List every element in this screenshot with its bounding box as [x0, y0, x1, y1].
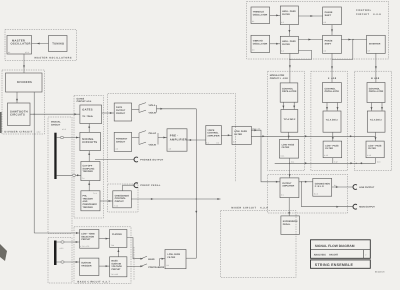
- svg-text:VOICE: VOICE: [207, 129, 215, 132]
- svg-text:TRIGGER: TRIGGER: [83, 197, 94, 200]
- svg-text:LOW - TONE: LOW - TONE: [81, 233, 95, 236]
- gates box: [80, 105, 102, 124]
- wire cutoff trigger to mixing circuits: [88, 151, 90, 162]
- wire output amplifier to main output jack: [301, 181, 354, 208]
- svg-text:CELLO: CELLO: [149, 132, 157, 135]
- wire formant to formant switches: [132, 133, 139, 145]
- svg-text:4.2.2: 4.2.2: [60, 247, 64, 250]
- svg-text:CRESC PEDAL: CRESC PEDAL: [140, 184, 161, 187]
- wire bass lpf to mixer bus: [186, 257, 196, 259]
- low pass filter bass box: [165, 250, 186, 269]
- wire crescendo bus to output stage: [131, 198, 220, 200]
- wire crescendo control to pedal jack: [123, 185, 135, 191]
- wire bass keyboard to sustain trigger: [57, 261, 80, 263]
- crescendo circuit dashed box: [108, 184, 139, 212]
- svg-text:LOW - PASS: LOW - PASS: [325, 144, 339, 147]
- wire tca 2 to lpf 2: [332, 132, 334, 141]
- wire pre-amplifier to voice control amplifier: [187, 139, 206, 141]
- svg-text:7.4: 7.4: [82, 177, 84, 180]
- svg-text:6.4: 6.4: [281, 50, 283, 53]
- high pass filter 2 box: [280, 36, 298, 53]
- wires control oscillator 1 to tca 1: [282, 102, 295, 109]
- wire hpf1 to hpf2: [288, 25, 290, 37]
- wire master oscillator to dividers: [23, 54, 25, 73]
- svg-text:SUSTAIN: SUSTAIN: [81, 262, 91, 265]
- svg-text:CIRCUIT: CIRCUIT: [81, 238, 91, 241]
- master oscillators dashed box: [5, 30, 77, 61]
- title block frame: [311, 240, 371, 258]
- bass circuit dashed box: [74, 227, 131, 284]
- svg-text:T.C.A 350 Z: T.C.A 350 Z: [370, 119, 383, 122]
- svg-text:VIOLA: VIOLA: [149, 104, 156, 107]
- tuning box: [49, 36, 68, 52]
- svg-text:6.12: 6.12: [334, 161, 337, 164]
- wire lpf 3 to output bus: [375, 158, 377, 164]
- bass lpf dashed edge: [133, 247, 135, 280]
- svg-text:LOW- PASS: LOW- PASS: [234, 130, 247, 133]
- phl trigger and crescendo trigger box: [81, 191, 100, 211]
- svg-text:F I E L D: F I E L D: [315, 185, 324, 188]
- divider circuit dashed box: [2, 70, 45, 134]
- svg-text:SUSTAIN: SUSTAIN: [111, 262, 121, 265]
- svg-text:MODULATOR: MODULATOR: [270, 74, 285, 77]
- svg-text:CUT-OFF: CUT-OFF: [83, 165, 93, 168]
- wire sustain trigger to bass sustain voltage: [99, 265, 110, 267]
- manual circuit dashed box: [48, 117, 72, 234]
- svg-text:CIRCUITS: CIRCUITS: [82, 141, 97, 144]
- high pass filter 1 box: [280, 6, 298, 25]
- wire gates to gate output circuit: [102, 112, 115, 114]
- low pass filter voice box: [232, 126, 251, 144]
- svg-text:OSCILLATOR: OSCILLATOR: [369, 90, 384, 93]
- wire lpf 2 to output bus: [332, 158, 334, 164]
- wire bass sustain voltage to clipper: [117, 247, 119, 256]
- phase shift 2 box: [323, 35, 342, 53]
- svg-text:6.11: 6.11: [291, 161, 294, 164]
- wire output amplifier to expression pedal: [288, 198, 290, 216]
- svg-text:PHASE: PHASE: [325, 11, 333, 14]
- bass sustain voltage circuit box: [110, 257, 127, 277]
- wire tca 3 to lpf 3: [375, 132, 377, 141]
- svg-text:T.C.A 350 Z: T.C.A 350 Z: [326, 119, 339, 122]
- main output jack: [353, 204, 375, 209]
- svg-text:AMPLIFIER: AMPLIFIER: [282, 185, 294, 188]
- svg-text:CIRCUIT 4.3.6: CIRCUIT 4.3.6: [356, 13, 381, 16]
- wire lpf 1 to output bus: [289, 158, 291, 163]
- switch cello: [139, 131, 156, 135]
- switch violin 2: [139, 142, 156, 146]
- svg-text:9.1: 9.1: [281, 194, 283, 197]
- clipper box: [110, 230, 127, 248]
- svg-text:EXPRESSION: EXPRESSION: [283, 220, 298, 223]
- svg-text:9.4.2: 9.4.2: [314, 193, 318, 196]
- crescendo pedal jack: [134, 183, 161, 188]
- wire manual keyboard to cutoff trigger: [57, 174, 81, 176]
- svg-text:VIOLIN: VIOLIN: [149, 112, 157, 115]
- control oscillator 2 box: [323, 83, 342, 103]
- svg-text:FILTER: FILTER: [282, 43, 290, 46]
- modulator circuit III dashed box: [354, 71, 391, 170]
- wire manual keyboard to mixing circuits: [57, 136, 80, 138]
- svg-text:6.7: 6.7: [368, 50, 370, 53]
- wire phase junction jog to control oscillator 2: [332, 40, 353, 60]
- low pass filter mod2 box: [323, 141, 342, 158]
- svg-text:MANUAL: MANUAL: [51, 121, 61, 124]
- svg-text:6.13: 6.13: [377, 161, 380, 164]
- low tone selection circuit box: [80, 230, 99, 249]
- expression pedal box: [281, 216, 300, 235]
- modulator output bus: [275, 162, 376, 164]
- svg-text:7.4.1: 7.4.1: [93, 192, 97, 195]
- switch bass: [141, 256, 155, 261]
- wires control oscillator 2 to tca 2: [326, 103, 339, 112]
- tca350 1 box: [281, 110, 298, 133]
- wire tremolo oscillator to hpf1: [270, 14, 281, 16]
- wire sawtooth circuits to gates: [30, 113, 80, 115]
- svg-text:CIRCUIT: CIRCUIT: [51, 123, 61, 126]
- svg-text:FILTER: FILTER: [168, 256, 176, 259]
- svg-text:6.3: 6.3: [252, 49, 254, 52]
- svg-text:6.1.1: 6.1.1: [281, 154, 285, 157]
- svg-text:TN 72445: TN 72445: [82, 115, 93, 118]
- svg-text:SAMPLING: SAMPLING: [83, 167, 95, 170]
- tca350 2 box: [323, 111, 341, 132]
- phase shift 1 box: [323, 7, 342, 25]
- line output jack: [353, 185, 375, 190]
- wire clipper to bass switch: [127, 238, 143, 260]
- svg-text:FORMANT: FORMANT: [116, 137, 128, 140]
- svg-text:CIRCUIT 4.3.4: CIRCUIT 4.3.4: [77, 100, 93, 103]
- wire connection field to line output jack: [332, 186, 354, 188]
- svg-text:PHONES OUTPUT: PHONES OUTPUT: [140, 159, 164, 162]
- wire bass keyboard to low tone selection: [57, 241, 80, 243]
- svg-text:CRESCENDO: CRESCENDO: [115, 194, 130, 197]
- svg-text:INVERTER: INVERTER: [369, 42, 381, 45]
- svg-text:OUTPUT: OUTPUT: [282, 182, 292, 185]
- wire inverter to control oscillator 3: [375, 53, 377, 82]
- control circuit dashed box: [247, 1, 389, 59]
- svg-text:8.1: 8.1: [167, 264, 169, 267]
- svg-text:FILTER: FILTER: [325, 147, 333, 150]
- svg-text:OSCILLATOR: OSCILLATOR: [282, 90, 297, 93]
- wire phase shift 1 to phase shift 2: [331, 25, 333, 36]
- voicing circuit dashed box: [108, 94, 236, 183]
- wire left bus to low tone selection: [34, 232, 79, 234]
- wire voice switches to mixer bus: [157, 105, 197, 113]
- inverter box: [367, 35, 386, 53]
- svg-text:CONTRABASS: CONTRABASS: [148, 266, 164, 269]
- svg-text:CIRCUIT 1 4.3.8: CIRCUIT 1 4.3.8: [270, 77, 289, 80]
- svg-text:VIOLIN: VIOLIN: [149, 144, 157, 147]
- modulator input bus: [251, 135, 375, 137]
- svg-text:4.6: 4.6: [116, 148, 118, 151]
- low pass filter mod1 box: [279, 140, 298, 159]
- svg-text:OSCILLATOR: OSCILLATOR: [325, 90, 340, 93]
- svg-text:6.2: 6.2: [281, 21, 283, 24]
- scan smudge left top: [0, 112, 2, 133]
- svg-text:HIGH - PASS: HIGH - PASS: [282, 40, 296, 43]
- svg-text:OSCILLATOR: OSCILLATOR: [11, 43, 31, 46]
- svg-text:OSCILLATOR: OSCILLATOR: [253, 13, 268, 16]
- svg-text:CONTROL: CONTROL: [115, 197, 127, 200]
- scan smudge left bottom: [0, 244, 7, 261]
- svg-text:7.4.2: 7.4.2: [114, 204, 118, 207]
- svg-text:T.C.A 350 Z: T.C.A 350 Z: [284, 118, 297, 121]
- connection field box: [313, 178, 332, 196]
- vibrato oscillator box: [251, 35, 270, 52]
- svg-text:MOD 4.3.8: MOD 4.3.8: [252, 128, 260, 131]
- manual keyboard bar: [54, 133, 56, 179]
- wires control oscillator 3 to tca 3: [371, 103, 384, 112]
- svg-text:FILTER: FILTER: [282, 13, 290, 16]
- switch viola: [139, 103, 156, 107]
- svg-text:MAIN OUTPUT: MAIN OUTPUT: [359, 206, 375, 209]
- svg-text:CONTROL: CONTROL: [325, 87, 337, 90]
- wire bass switches to bass lpf: [159, 258, 165, 267]
- svg-text:4.3.2: 4.3.2: [37, 130, 41, 133]
- cutoff sampling trigger box: [81, 162, 100, 181]
- svg-text:FILTER: FILTER: [234, 133, 242, 136]
- svg-text:CONTROL: CONTROL: [207, 132, 219, 135]
- svg-text:CIRCUITS: CIRCUITS: [10, 114, 25, 117]
- output amplifier box: [280, 178, 299, 198]
- wire output bus to output amplifier: [289, 163, 291, 178]
- svg-text:AND: AND: [83, 200, 88, 203]
- svg-text:DIVIDER CIRCUIT: DIVIDER CIRCUIT: [5, 130, 33, 133]
- svg-text:TUNING: TUNING: [52, 43, 64, 46]
- wire to phones jack: [95, 159, 135, 161]
- svg-text:CONTROL: CONTROL: [356, 9, 372, 12]
- switch contrabass: [141, 264, 165, 269]
- svg-text:TRIGGER: TRIGGER: [83, 170, 94, 173]
- control oscillator 3 box: [367, 83, 385, 103]
- wire phl trigger to cutoff trigger: [88, 181, 90, 191]
- svg-text:FILTER: FILTER: [282, 146, 290, 149]
- svg-text:6.5: 6.5: [324, 21, 326, 24]
- svg-text:4.5: 4.5: [169, 147, 171, 150]
- svg-text:BASS: BASS: [148, 258, 155, 261]
- svg-text:MIXER CIRCUIT 4.3.9: MIXER CIRCUIT 4.3.9: [231, 206, 268, 209]
- svg-text:CIRCUIT: CIRCUIT: [115, 200, 125, 203]
- wire output amplifier to connection field: [299, 181, 313, 183]
- svg-text:TREMOLO: TREMOLO: [253, 11, 264, 14]
- modulator circuit II dashed box: [311, 71, 348, 170]
- wire dividers to sawtooth circuits: [16, 92, 18, 103]
- svg-text:6.1.3: 6.1.3: [367, 154, 371, 157]
- svg-text:OSCILLATOR: OSCILLATOR: [253, 42, 268, 45]
- svg-text:8.3: 8.3: [233, 141, 235, 144]
- svg-text:CIRCUIT: CIRCUIT: [111, 268, 121, 271]
- sawtooth circuits box: [8, 103, 31, 126]
- gates circuit dashed box: [74, 96, 104, 219]
- svg-text:DIVIDERS: DIVIDERS: [17, 81, 32, 84]
- svg-text:BB 345 678: BB 345 678: [375, 271, 384, 274]
- svg-text:CIRCUIT: CIRCUIT: [116, 112, 126, 115]
- wire voice control amplifier to low pass filter: [221, 134, 232, 136]
- svg-text:MASTER OSCILLATORS: MASTER OSCILLATORS: [35, 57, 73, 60]
- svg-text:9.4: 9.4: [334, 184, 336, 187]
- svg-text:8.2: 8.2: [217, 141, 219, 144]
- master oscillator box: [7, 36, 32, 55]
- mixer / output dashed box: [268, 174, 348, 213]
- wire mixing circuits to gates: [88, 124, 90, 133]
- svg-text:TRIGGER: TRIGGER: [83, 206, 94, 209]
- svg-text:GATES: GATES: [77, 97, 85, 100]
- wire phl trigger to crescendo control: [100, 200, 113, 202]
- svg-text:SHIFT: SHIFT: [325, 14, 332, 17]
- wire low pass filter to output amp feed: [251, 129, 280, 183]
- svg-text:PHASE: PHASE: [325, 40, 333, 43]
- svg-text:7.6 / 4.8.5: 7.6 / 4.8.5: [111, 273, 119, 276]
- sustain trigger box: [80, 258, 99, 275]
- bass keyboard bar: [54, 241, 57, 266]
- mixing circuits box: [80, 132, 101, 150]
- svg-text:ANALYSIS ON SHT: ANALYSIS ON SHT: [314, 254, 339, 257]
- phones jack: [134, 157, 164, 162]
- low pass filter mod3 box: [366, 141, 384, 158]
- svg-text:CONTROL: CONTROL: [369, 87, 381, 90]
- wire phase shift 2 to inverter: [341, 39, 366, 41]
- svg-text:LOW- PASS: LOW- PASS: [168, 253, 181, 256]
- svg-text:AMPLIFIER: AMPLIFIER: [207, 134, 219, 137]
- svg-text:GATE: GATE: [116, 106, 123, 109]
- wire gate output to voice switches: [132, 105, 139, 113]
- svg-text:LINE OUTPUT: LINE OUTPUT: [359, 186, 375, 189]
- svg-text:4.1: 4.1: [8, 51, 10, 54]
- svg-text:LOW- PASS: LOW- PASS: [282, 143, 295, 146]
- svg-text:8.1: 8.1: [206, 141, 208, 144]
- mixer bus vertical: [195, 109, 197, 258]
- svg-text:SELECTION: SELECTION: [81, 235, 94, 238]
- svg-text:BASS: BASS: [111, 260, 118, 263]
- wire hpf1 to phase shift 1: [298, 15, 322, 17]
- svg-text:4.3.3: 4.3.3: [62, 128, 66, 131]
- switch violin 1: [139, 110, 156, 114]
- svg-text:CIRCUIT: CIRCUIT: [116, 140, 126, 143]
- svg-text:4.3.1: 4.3.1: [25, 51, 29, 54]
- svg-text:SIGNAL FLOW DIAGRAM: SIGNAL FLOW DIAGRAM: [315, 244, 355, 248]
- wire hpf2 branch jog to control oscillator 1: [289, 50, 311, 60]
- control oscillator 1 box: [280, 83, 298, 102]
- svg-text:6.1.2: 6.1.2: [324, 154, 328, 157]
- svg-text:TRIGGER: TRIGGER: [81, 264, 92, 267]
- svg-text:VIBRATO: VIBRATO: [253, 40, 263, 43]
- wire tca 1 to lpf 1: [288, 132, 290, 139]
- wire vibrato oscillator to hpf2: [270, 43, 281, 45]
- svg-text:HIGH - PASS: HIGH - PASS: [282, 10, 296, 13]
- svg-text:CONNECTION: CONNECTION: [315, 182, 331, 185]
- gate output circuit box: [114, 103, 131, 121]
- wire tuning to master oscillator: [32, 43, 49, 45]
- svg-text:OUTPUT: OUTPUT: [116, 109, 126, 112]
- svg-text:VOLTAGE: VOLTAGE: [111, 265, 122, 268]
- svg-text:GATES: GATES: [82, 109, 93, 112]
- wire dividers to left bus: [34, 92, 35, 233]
- wire bass sustain to contrabass switch: [127, 265, 143, 267]
- wire formant switches to pre-amplifier: [158, 133, 167, 145]
- tremolo oscillator box: [251, 7, 270, 24]
- svg-text:6.1: 6.1: [252, 20, 254, 23]
- svg-text:CLIPPER: CLIPPER: [112, 233, 122, 236]
- wire phase shift 2 to control oscillator 2: [331, 53, 333, 82]
- svg-text:II 4.3.8: II 4.3.8: [328, 77, 337, 80]
- svg-text:4.7.1 / 4.7.2: 4.7.1 / 4.7.2: [80, 245, 89, 248]
- svg-text:PRE -: PRE -: [170, 135, 179, 138]
- crescendo control circuit box: [113, 191, 132, 208]
- svg-text:PEDAL: PEDAL: [283, 223, 291, 226]
- formant circuit box: [114, 132, 131, 151]
- svg-text:PHL: PHL: [83, 195, 88, 198]
- svg-text:LOW - PASS: LOW - PASS: [368, 144, 382, 147]
- tca350 3 box: [367, 111, 385, 132]
- svg-text:AMPLIFIER: AMPLIFIER: [170, 138, 187, 141]
- svg-text:CRESCENDO: CRESCENDO: [83, 203, 98, 206]
- wire hpf2 to control oscillator 1: [289, 53, 291, 83]
- svg-text:SHIFT: SHIFT: [325, 42, 332, 45]
- svg-text:6.6: 6.6: [324, 50, 326, 53]
- svg-text:III 4.3.8: III 4.3.8: [371, 77, 380, 80]
- svg-text:CONTROL: CONTROL: [282, 87, 294, 90]
- svg-text:7.66: 7.66: [111, 244, 114, 247]
- mixer circuit dashed box: [221, 210, 296, 277]
- svg-text:STRING ENSEMBLE: STRING ENSEMBLE: [315, 263, 354, 267]
- modulator circuit I dashed box: [268, 71, 305, 170]
- svg-text:FILTER: FILTER: [368, 147, 376, 150]
- bass keyboard dashed box: [48, 238, 72, 284]
- pre-amplifier box: [167, 129, 187, 151]
- wire hpf2 to phase shift 2: [298, 39, 322, 41]
- dividers box: [6, 73, 43, 92]
- voice control amplifier box: [206, 126, 222, 145]
- svg-text:BASS CIRCUIT 4.3.7: BASS CIRCUIT 4.3.7: [78, 280, 111, 283]
- wire low tone selection to clipper: [99, 238, 110, 240]
